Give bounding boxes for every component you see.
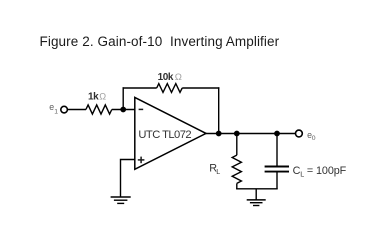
title: Figure 2. Gain-of-10 Inverting Amplifier	[40, 34, 280, 49]
wire feedback top left segment	[123, 87, 157, 89]
svg-text:0: 0	[312, 135, 316, 142]
wire e1 terminal to R1	[68, 109, 86, 111]
capacitor CL	[265, 167, 289, 189]
wire output node down to CL top plate	[276, 134, 278, 167]
svg-text:Ω: Ω	[175, 72, 182, 83]
svg-text:1: 1	[54, 108, 58, 115]
wire bottom rail to ground	[255, 189, 257, 200]
svg-text:1k: 1k	[88, 92, 99, 103]
ground (right, below RL and CL)	[247, 200, 266, 206]
svg-text:= 100pF: = 100pF	[304, 165, 347, 177]
wire op-amp output to e0 terminal	[205, 133, 295, 135]
svg-text:Ω: Ω	[99, 91, 106, 101]
node junction at inverting input	[120, 107, 126, 113]
node junction to RL	[234, 131, 240, 137]
label RL	[209, 162, 220, 176]
value label 10k ohm	[158, 72, 182, 83]
node output junction (feedback)	[216, 131, 222, 137]
wire non-inverting input to ground	[121, 160, 135, 198]
wire R1 to inverting input	[112, 109, 135, 111]
pin label plus (non-inverting input)	[138, 157, 145, 164]
resistor R2 10k ohm feedback	[157, 84, 183, 93]
svg-text:Figure 2. Gain-of-10 Invertin: Figure 2. Gain-of-10 Inverting Amplifier	[40, 34, 280, 49]
svg-text:10k: 10k	[158, 72, 174, 83]
wire output node down to RL	[236, 134, 238, 156]
wire junction up to feedback	[122, 87, 124, 110]
label e1	[49, 102, 58, 115]
wire bottom rail RL to CL	[236, 188, 278, 190]
op-amp U1 UTC TL072	[135, 97, 206, 169]
value label 1k ohm	[88, 91, 106, 102]
value label CL = 100pF	[293, 165, 347, 178]
node e1 input terminal	[61, 106, 68, 113]
resistor RL (load)	[232, 155, 241, 189]
node junction to CL	[274, 131, 280, 137]
svg-text:L: L	[216, 167, 220, 176]
wire feedback top right segment	[182, 87, 219, 89]
pin label minus (inverting input)	[139, 108, 144, 110]
node e0 output terminal	[296, 130, 303, 137]
label e0	[307, 130, 316, 142]
part label UTC TL072	[138, 129, 191, 141]
ground (left, at op-amp + input)	[111, 197, 131, 203]
resistor R1 1k ohm	[86, 105, 112, 114]
svg-text:UTC TL072: UTC TL072	[138, 129, 191, 141]
wire feedback down to output node	[218, 87, 220, 133]
